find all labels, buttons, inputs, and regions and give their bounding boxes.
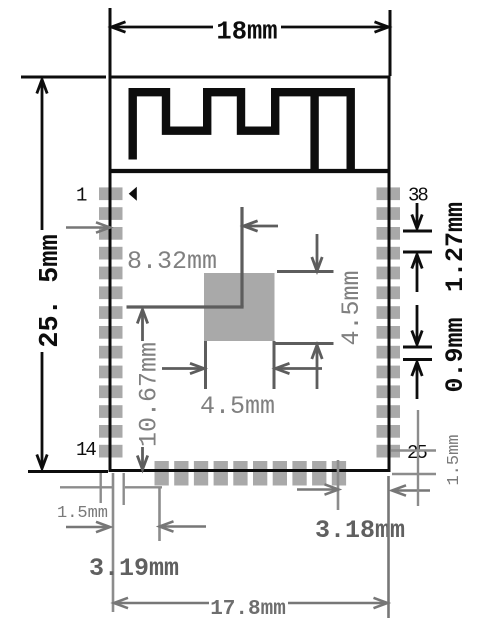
module outline [110,77,389,471]
svg-text:25. 5mm: 25. 5mm [36,234,66,347]
dimension 4.5mm thermal pad width [162,341,322,421]
svg-text:3.18mm: 3.18mm [315,516,405,545]
right pad column pins 38-25 [377,187,401,457]
svg-text:10.67mm: 10.67mm [135,342,164,447]
pin label 25 [407,442,427,464]
antenna separator line [109,169,391,173]
svg-text:17.8mm: 17.8mm [210,598,286,621]
dimension 0.9mm pad width [403,305,470,399]
dimension 1.5mm left pad length [57,473,162,523]
pin label 14 [76,439,96,461]
dimension 3.18mm [297,460,430,545]
svg-text:1: 1 [76,185,87,207]
dimension 8.32mm pad center offset [66,207,278,307]
pin label 38 [408,185,428,207]
center thermal pad [204,273,275,341]
svg-text:4.5mm: 4.5mm [337,270,366,345]
svg-text:4.5mm: 4.5mm [200,392,275,421]
svg-text:1.27mm: 1.27mm [441,202,470,292]
svg-text:1.5mm: 1.5mm [445,434,464,485]
svg-text:1.5mm: 1.5mm [57,504,108,523]
svg-text:14: 14 [76,439,96,461]
dimension 17.8mm bottom [114,476,389,621]
dimension 18mm top width [110,8,390,76]
dimension 1.5mm right [391,410,464,506]
dimension 4.5mm thermal pad height [276,234,367,389]
svg-text:8.32mm: 8.32mm [127,247,217,276]
svg-text:3.19mm: 3.19mm [89,554,179,583]
dimension 3.19mm [66,473,206,612]
svg-text:0.9mm: 0.9mm [441,317,470,392]
bottom pad row pins 15-24 [155,461,347,486]
pin label 1 [76,185,87,207]
left pad column pins 1-14 [99,187,123,457]
pin 1 marker triangle [129,187,137,201]
dimension 1.27mm pad pitch [403,202,470,292]
dimension 25.5mm left height [21,77,108,472]
dimension 10.67mm vertical offset [135,310,164,470]
svg-text:18mm: 18mm [216,18,277,47]
PCB meander antenna trace [133,92,351,169]
